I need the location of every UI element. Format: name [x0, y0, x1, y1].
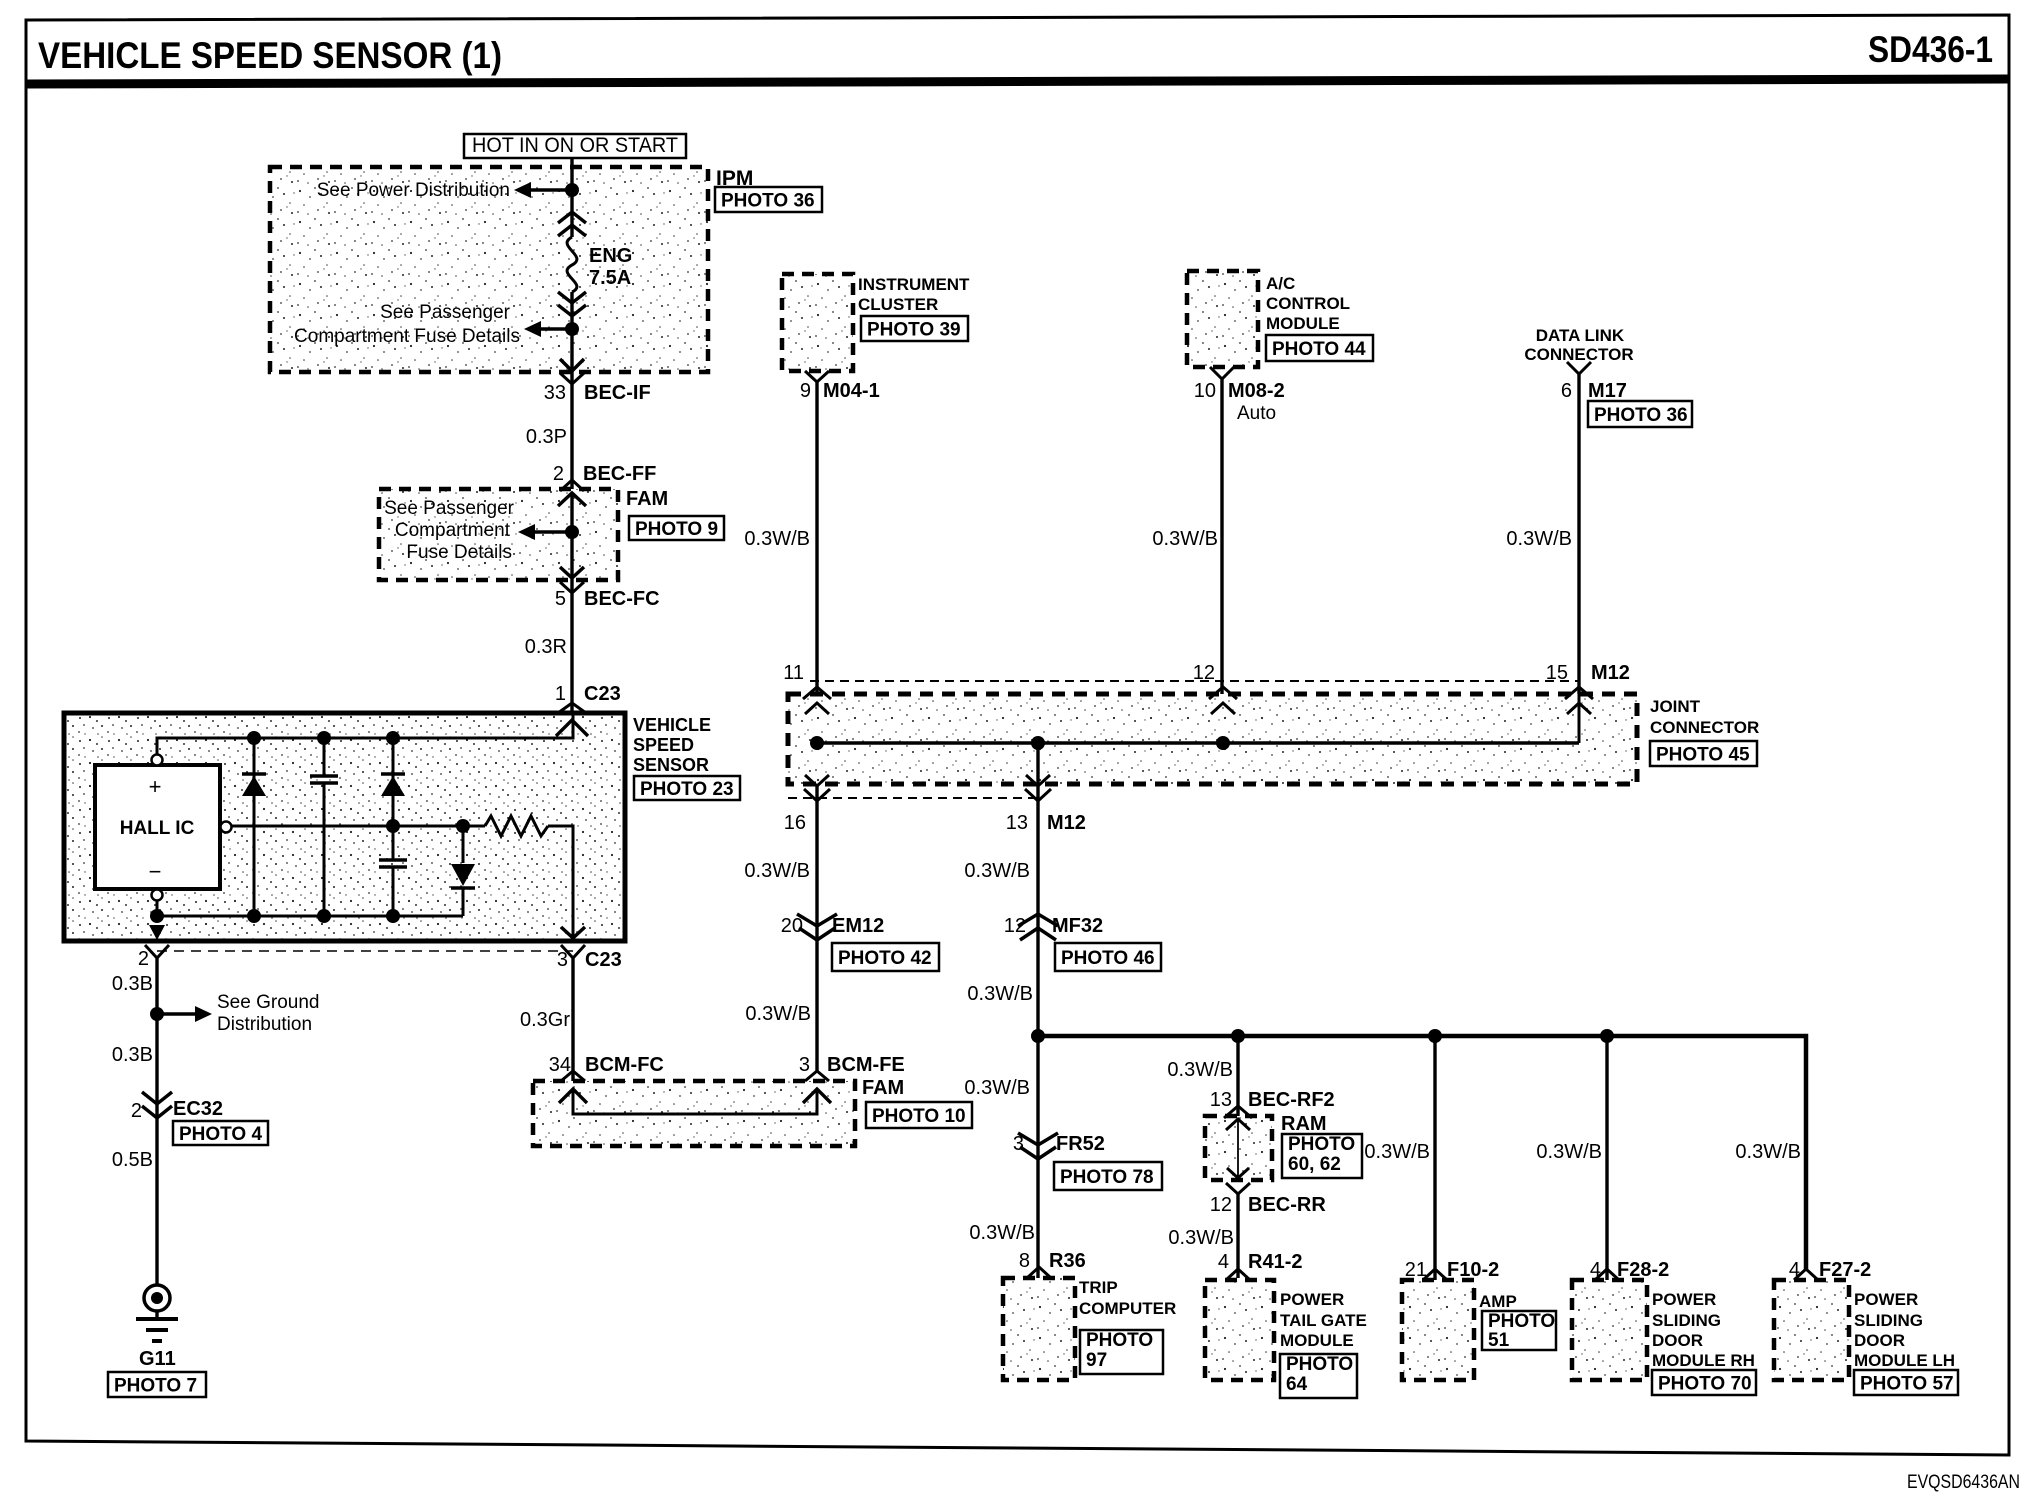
- svg-text:F28-2: F28-2: [1617, 1259, 1669, 1281]
- svg-text:7.5A: 7.5A: [589, 267, 631, 289]
- svg-text:0.3B: 0.3B: [112, 973, 153, 995]
- svg-text:8: 8: [1019, 1250, 1030, 1272]
- svg-text:64: 64: [1286, 1374, 1308, 1395]
- svg-text:0.3W/B: 0.3W/B: [964, 860, 1030, 882]
- svg-text:See Ground: See Ground: [217, 992, 319, 1013]
- svg-text:POWER: POWER: [1280, 1290, 1344, 1309]
- svg-text:FAM: FAM: [626, 488, 668, 510]
- svg-text:MODULE: MODULE: [1266, 314, 1340, 333]
- svg-text:2: 2: [553, 463, 564, 485]
- svg-text:POWER: POWER: [1652, 1290, 1716, 1309]
- svg-text:Distribution: Distribution: [217, 1014, 312, 1035]
- svg-text:SLIDING: SLIDING: [1652, 1311, 1721, 1330]
- svg-text:Fuse Details: Fuse Details: [406, 542, 512, 563]
- svg-text:M04-1: M04-1: [823, 380, 880, 402]
- svg-text:PHOTO: PHOTO: [1086, 1330, 1153, 1351]
- svg-text:DATA LINK: DATA LINK: [1536, 326, 1625, 345]
- svg-text:PHOTO 39: PHOTO 39: [867, 319, 961, 340]
- svg-text:60, 62: 60, 62: [1288, 1154, 1341, 1175]
- svg-text:0.3W/B: 0.3W/B: [1168, 1227, 1234, 1249]
- svg-text:AMP: AMP: [1479, 1292, 1517, 1311]
- svg-text:R41-2: R41-2: [1248, 1251, 1302, 1273]
- svg-text:0.3W/B: 0.3W/B: [1536, 1141, 1602, 1163]
- svg-text:SENSOR: SENSOR: [633, 755, 709, 775]
- svg-text:PHOTO 70: PHOTO 70: [1658, 1373, 1752, 1394]
- svg-text:MODULE RH: MODULE RH: [1652, 1351, 1755, 1370]
- svg-text:5: 5: [555, 588, 566, 610]
- svg-text:DOOR: DOOR: [1652, 1331, 1703, 1350]
- svg-text:0.3W/B: 0.3W/B: [1506, 528, 1572, 550]
- svg-text:3: 3: [1013, 1133, 1024, 1155]
- svg-text:+: +: [149, 774, 162, 799]
- svg-text:0.3R: 0.3R: [525, 636, 567, 658]
- svg-text:PHOTO 7: PHOTO 7: [114, 1375, 197, 1396]
- svg-text:CONTROL: CONTROL: [1266, 294, 1350, 313]
- svg-text:CLUSTER: CLUSTER: [858, 295, 938, 314]
- svg-text:HOT IN ON OR START: HOT IN ON OR START: [472, 134, 678, 157]
- svg-text:0.3Gr: 0.3Gr: [520, 1009, 570, 1031]
- svg-text:0.3W/B: 0.3W/B: [1167, 1059, 1233, 1081]
- svg-text:0.5B: 0.5B: [112, 1149, 153, 1171]
- svg-text:PHOTO: PHOTO: [1488, 1311, 1555, 1332]
- svg-text:−: −: [149, 859, 162, 884]
- svg-text:PHOTO: PHOTO: [1288, 1134, 1355, 1155]
- svg-text:10: 10: [1194, 380, 1216, 402]
- svg-text:0.3W/B: 0.3W/B: [967, 983, 1033, 1005]
- svg-text:VEHICLE: VEHICLE: [633, 715, 711, 735]
- svg-text:A/C: A/C: [1266, 274, 1295, 293]
- svg-text:0.3W/B: 0.3W/B: [744, 528, 810, 550]
- svg-text:TRIP: TRIP: [1079, 1278, 1118, 1297]
- svg-text:MODULE: MODULE: [1280, 1331, 1354, 1350]
- svg-text:PHOTO 46: PHOTO 46: [1061, 948, 1155, 969]
- svg-text:13: 13: [1006, 812, 1028, 834]
- svg-text:M12: M12: [1047, 812, 1086, 834]
- svg-text:33: 33: [544, 382, 566, 404]
- svg-text:PHOTO 78: PHOTO 78: [1060, 1167, 1154, 1188]
- svg-text:97: 97: [1086, 1350, 1107, 1371]
- svg-text:COMPUTER: COMPUTER: [1079, 1299, 1176, 1318]
- svg-text:M12: M12: [1591, 662, 1630, 684]
- svg-text:0.3W/B: 0.3W/B: [744, 860, 810, 882]
- svg-text:BCM-FC: BCM-FC: [585, 1054, 664, 1076]
- svg-text:PHOTO 36: PHOTO 36: [1594, 405, 1688, 426]
- svg-text:M08-2: M08-2: [1228, 380, 1285, 402]
- svg-text:R36: R36: [1049, 1250, 1086, 1272]
- svg-text:ENG: ENG: [589, 245, 632, 267]
- svg-text:EC32: EC32: [173, 1098, 223, 1120]
- svg-text:See Passenger: See Passenger: [384, 498, 515, 519]
- svg-text:13: 13: [1210, 1089, 1232, 1111]
- svg-text:Auto: Auto: [1237, 403, 1276, 424]
- svg-text:PHOTO 23: PHOTO 23: [640, 779, 734, 800]
- svg-text:PHOTO 44: PHOTO 44: [1272, 339, 1366, 360]
- svg-text:9: 9: [800, 380, 811, 402]
- svg-text:0.3B: 0.3B: [112, 1044, 153, 1066]
- svg-text:0.3W/B: 0.3W/B: [964, 1077, 1030, 1099]
- svg-text:F27-2: F27-2: [1819, 1259, 1871, 1281]
- svg-text:RAM: RAM: [1281, 1113, 1327, 1135]
- svg-text:PHOTO: PHOTO: [1286, 1354, 1353, 1375]
- svg-text:0.3W/B: 0.3W/B: [745, 1003, 811, 1025]
- svg-text:20: 20: [781, 915, 803, 937]
- svg-text:MODULE LH: MODULE LH: [1854, 1351, 1955, 1370]
- svg-text:F10-2: F10-2: [1447, 1259, 1499, 1281]
- svg-text:JOINT: JOINT: [1650, 697, 1701, 716]
- svg-text:1: 1: [555, 683, 566, 705]
- svg-text:0.3W/B: 0.3W/B: [1364, 1141, 1430, 1163]
- svg-text:3: 3: [557, 949, 568, 971]
- svg-text:BEC-FF: BEC-FF: [583, 463, 656, 485]
- svg-text:VEHICLE SPEED SENSOR (1): VEHICLE SPEED SENSOR (1): [38, 35, 502, 76]
- svg-text:15: 15: [1546, 662, 1568, 684]
- svg-text:PHOTO 36: PHOTO 36: [721, 190, 815, 211]
- svg-text:C23: C23: [585, 949, 622, 971]
- svg-text:C23: C23: [584, 683, 621, 705]
- svg-text:BEC-FC: BEC-FC: [584, 588, 660, 610]
- svg-text:TAIL GATE: TAIL GATE: [1280, 1311, 1367, 1330]
- svg-text:HALL IC: HALL IC: [120, 818, 195, 839]
- svg-text:BEC-RF2: BEC-RF2: [1248, 1089, 1335, 1111]
- svg-text:PHOTO 4: PHOTO 4: [179, 1124, 262, 1145]
- svg-text:PHOTO 10: PHOTO 10: [872, 1106, 966, 1127]
- svg-text:FR52: FR52: [1056, 1133, 1105, 1155]
- svg-text:G11: G11: [139, 1348, 176, 1370]
- svg-text:INSTRUMENT: INSTRUMENT: [858, 275, 970, 294]
- svg-text:3: 3: [799, 1054, 810, 1076]
- svg-text:EM12: EM12: [832, 915, 884, 937]
- svg-text:MF32: MF32: [1052, 915, 1103, 937]
- svg-text:51: 51: [1488, 1330, 1510, 1351]
- svg-text:POWER: POWER: [1854, 1290, 1918, 1309]
- svg-text:BEC-IF: BEC-IF: [584, 382, 651, 404]
- svg-text:PHOTO 42: PHOTO 42: [838, 948, 932, 969]
- svg-text:CONNECTOR: CONNECTOR: [1524, 345, 1633, 364]
- svg-text:11: 11: [783, 662, 804, 684]
- svg-text:0.3W/B: 0.3W/B: [1735, 1141, 1801, 1163]
- svg-text:12: 12: [1004, 915, 1026, 937]
- svg-text:Compartment: Compartment: [395, 520, 511, 541]
- svg-text:2: 2: [138, 948, 149, 970]
- svg-text:EVQSD6436AN: EVQSD6436AN: [1907, 1472, 2020, 1493]
- svg-text:SLIDING: SLIDING: [1854, 1311, 1923, 1330]
- svg-text:16: 16: [784, 812, 806, 834]
- svg-text:0.3P: 0.3P: [526, 426, 567, 448]
- svg-text:See Passenger: See Passenger: [380, 302, 511, 323]
- svg-text:4: 4: [1218, 1251, 1229, 1273]
- svg-text:34: 34: [549, 1054, 571, 1076]
- svg-text:12: 12: [1210, 1194, 1232, 1216]
- svg-text:SD436-1: SD436-1: [1868, 29, 1993, 70]
- svg-text:FAM: FAM: [862, 1077, 904, 1099]
- svg-text:0.3W/B: 0.3W/B: [969, 1222, 1035, 1244]
- svg-text:PHOTO 45: PHOTO 45: [1656, 744, 1750, 765]
- svg-text:CONNECTOR: CONNECTOR: [1650, 718, 1759, 737]
- svg-text:PHOTO 57: PHOTO 57: [1860, 1373, 1954, 1394]
- svg-text:BCM-FE: BCM-FE: [827, 1054, 905, 1076]
- svg-text:12: 12: [1193, 662, 1215, 684]
- svg-text:DOOR: DOOR: [1854, 1331, 1905, 1350]
- svg-text:PHOTO 9: PHOTO 9: [635, 519, 718, 540]
- svg-text:Compartment Fuse Details: Compartment Fuse Details: [294, 326, 520, 347]
- svg-text:M17: M17: [1588, 380, 1627, 402]
- svg-text:0.3W/B: 0.3W/B: [1152, 528, 1218, 550]
- svg-text:SPEED: SPEED: [633, 735, 694, 755]
- svg-text:See Power Distribution: See Power Distribution: [317, 180, 510, 201]
- svg-text:6: 6: [1561, 380, 1572, 402]
- svg-text:BEC-RR: BEC-RR: [1248, 1194, 1326, 1216]
- svg-text:2: 2: [131, 1100, 142, 1122]
